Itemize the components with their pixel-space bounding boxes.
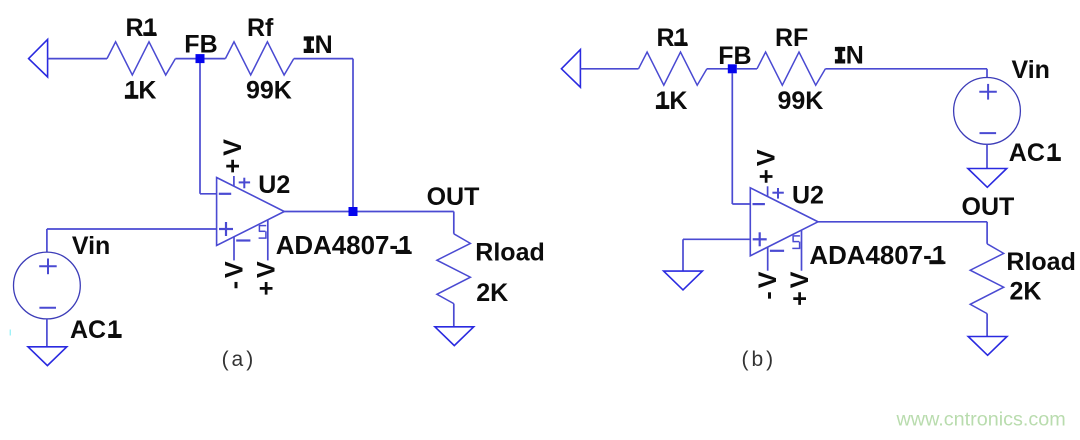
svg-text:1K: 1K — [125, 77, 157, 105]
svg-text:N: N — [315, 31, 333, 59]
wire arrow to R1 (a) — [48, 58, 107, 60]
net arrow left rail (a) — [29, 39, 48, 77]
resistor R1 (b) — [639, 52, 707, 85]
resistor RF (b) — [757, 52, 825, 85]
wire non-inverting input to ground (b) — [683, 238, 750, 240]
node FB junction square (a) — [196, 54, 205, 63]
svg-text:R1: R1 — [657, 24, 689, 52]
ground below Vin (b) — [968, 169, 1007, 188]
svg-text:-V: -V — [754, 269, 782, 300]
wire op-amp output to Rload corner (a) — [284, 211, 454, 213]
wire Rload to ground (a) — [453, 304, 455, 327]
svg-text:(a): (a) — [222, 348, 257, 371]
ground below Vin (a) — [28, 347, 67, 366]
wire arrow to R1 (b) — [580, 68, 638, 70]
svg-text:RF: RF — [775, 24, 808, 52]
svg-text:+V: +V — [219, 136, 247, 173]
svg-text:R1: R1 — [126, 14, 158, 42]
svg-text:AC: AC — [70, 316, 106, 344]
op-amp non-inverting input marker (b) — [753, 238, 767, 240]
wire FB vertical (b) — [731, 73, 733, 204]
op-amp inverting input marker (a) — [219, 193, 231, 195]
op-amp non-inverting input marker (a) — [219, 228, 233, 230]
wire FB to inverting input (b) — [732, 203, 750, 205]
wire source top stub (a) — [46, 229, 48, 252]
svg-text:2K: 2K — [1010, 277, 1042, 305]
wire FB to inverting input (a) — [200, 193, 217, 195]
node FB junction square (b) — [728, 64, 737, 73]
svg-text:FB: FB — [718, 42, 751, 70]
wire OUT corner down (a) — [453, 212, 455, 234]
svg-text:-V: -V — [220, 258, 248, 289]
wire OUT corner down (b) — [986, 222, 988, 244]
op-amp minus supply marker (a) — [236, 239, 250, 241]
ground below Rload (a) — [435, 327, 474, 346]
svg-text:99K: 99K — [246, 77, 292, 105]
svg-text:1: 1 — [107, 316, 121, 344]
svg-text:U2: U2 — [792, 181, 824, 209]
wire IN down to source (b) — [986, 69, 988, 78]
resistor R1 (a) — [107, 42, 175, 75]
op-amp pin 5 stub (b) — [801, 230, 803, 271]
svg-text:OUT: OUT — [427, 183, 480, 211]
op-amp pin 5 stub (a) — [267, 220, 269, 261]
wire FB to RF (b) — [737, 68, 757, 70]
ground below Rload (b) — [968, 337, 1007, 356]
wire source bottom stub (b) — [986, 144, 988, 168]
wire FB vertical (a) — [199, 63, 201, 194]
resistor Rload (b) — [970, 244, 1004, 314]
svg-text:Rload: Rload — [475, 238, 544, 266]
svg-text:+V: +V — [753, 146, 781, 183]
wire R1 to FB (b) — [707, 68, 728, 70]
wire source to non-inverting input (a) — [47, 228, 217, 230]
wire ground drop (b) — [682, 239, 684, 271]
op-amp U2 triangle (a) — [217, 178, 285, 246]
node OUT junction square (a) — [349, 207, 358, 216]
svg-text:Rload: Rload — [1006, 248, 1075, 276]
op-amp inverting input marker (b) — [753, 203, 765, 205]
svg-text:99K: 99K — [778, 87, 824, 115]
op-amp plus supply marker (b) — [772, 192, 783, 194]
svg-text:AC: AC — [1009, 139, 1045, 167]
op-amp U2 triangle (b) — [750, 188, 818, 256]
svg-text:2K: 2K — [476, 279, 508, 307]
svg-text:1K: 1K — [656, 87, 688, 115]
wire R1 to FB (a) — [175, 58, 196, 60]
svg-text:FB: FB — [184, 30, 217, 58]
op-amp pin number 5 (b) — [793, 235, 800, 237]
op-amp V+ supply stub (b) — [767, 186, 769, 196]
voltage source Vin (a) — [14, 252, 81, 319]
wire RF to IN corner (b) — [825, 68, 987, 70]
wire source bottom stub (a) — [46, 319, 48, 347]
resistor Rload (a) — [437, 234, 471, 304]
ground at non-inverting input (b) — [664, 271, 703, 290]
svg-text:+V: +V — [253, 258, 281, 295]
voltage source Vin (b) — [954, 78, 1021, 145]
svg-text:ADA4807-1: ADA4807-1 — [809, 242, 946, 270]
op-amp V- bottom stub (a) — [233, 237, 235, 261]
op-amp V+ supply stub (a) — [233, 176, 235, 186]
label IN (b) — [835, 47, 845, 51]
svg-text:(b): (b) — [741, 348, 776, 371]
svg-text:OUT: OUT — [962, 193, 1015, 221]
wire FB to Rf (a) — [204, 58, 225, 60]
stray cyan artifact — [9, 330, 11, 336]
wire Rload to ground (b) — [986, 314, 988, 337]
svg-text:www.cntronics.com: www.cntronics.com — [896, 408, 1066, 430]
op-amp plus supply marker (a) — [239, 181, 250, 183]
op-amp pin number 5 (a) — [259, 225, 266, 227]
wire op-amp output to Rload corner (b) — [818, 221, 987, 223]
wire IN vertical down (a) — [352, 59, 354, 212]
svg-text:Vin: Vin — [72, 232, 110, 260]
label IN (a) — [304, 36, 314, 40]
net arrow left rail (b) — [561, 50, 580, 88]
svg-text:Rf: Rf — [247, 14, 274, 42]
resistor Rf (a) — [225, 42, 293, 75]
svg-text:N: N — [846, 42, 864, 70]
svg-text:ADA4807-1: ADA4807-1 — [276, 232, 413, 260]
svg-text:Vin: Vin — [1012, 56, 1050, 84]
svg-text:1: 1 — [1047, 139, 1061, 167]
op-amp minus supply marker (b) — [770, 250, 784, 252]
svg-text:+V: +V — [786, 269, 814, 306]
svg-text:U2: U2 — [258, 171, 290, 199]
op-amp V- bottom stub (b) — [767, 247, 769, 271]
wire Rf to IN corner (a) — [294, 58, 353, 60]
